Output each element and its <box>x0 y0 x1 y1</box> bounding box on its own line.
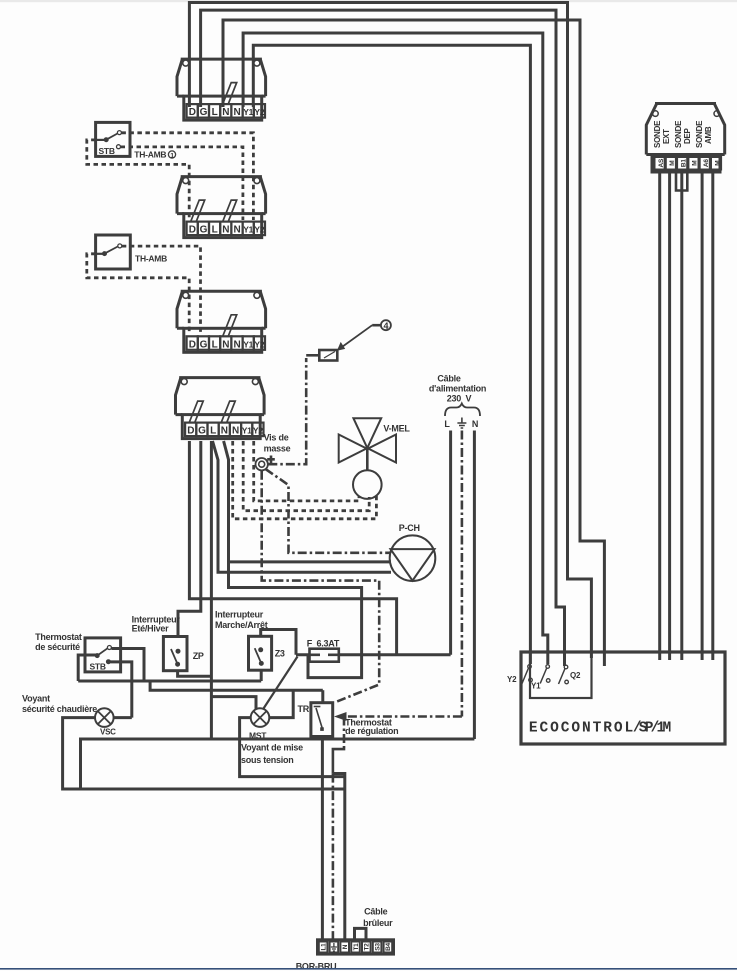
brace over supply wires <box>445 404 480 417</box>
earth bus to TR with arrow <box>346 715 462 718</box>
wire Z3 bottom to bus <box>260 670 263 681</box>
flow sensor pocket (clixon) <box>319 350 337 361</box>
supply wire earth <box>461 431 464 717</box>
svg-text:4: 4 <box>384 321 389 331</box>
terminal block 2 <box>177 177 266 238</box>
svg-text:STB: STB <box>90 662 106 672</box>
svg-text:Y1: Y1 <box>531 682 541 691</box>
svg-text:Y2: Y2 <box>507 675 517 684</box>
svg-text:V-MEL: V-MEL <box>383 424 410 434</box>
wire block1-G to ECOCONTROL Q2 <box>201 10 565 666</box>
wire MST right up to bus <box>269 690 293 717</box>
jumper on block2 G <box>191 200 205 222</box>
svg-text:M: M <box>669 161 676 166</box>
svg-text:d'alimentation: d'alimentation <box>429 384 486 394</box>
switch ZP ete/hiver <box>163 637 187 671</box>
fuse F 6.3AT <box>310 649 339 662</box>
svg-text:AS: AS <box>658 158 665 167</box>
wire block1-Y2 to ECOCONTROL Y2 switch <box>253 45 530 664</box>
earth symbol on terminal 2 <box>331 943 337 951</box>
wire VSC left down to N loop <box>63 718 345 789</box>
cable bruleur hook over T1 <box>355 928 367 939</box>
wire block4-L down to ZP junction <box>210 441 213 739</box>
svg-text:TH-AMB: TH-AMB <box>134 150 166 160</box>
svg-text:Câble: Câble <box>364 907 388 917</box>
svg-text:T1: T1 <box>353 943 360 951</box>
svg-text:Thermostat: Thermostat <box>35 632 82 642</box>
switch Y2 <box>522 665 532 684</box>
wire ZP bottom to L junction <box>178 671 212 677</box>
svg-text:230 V: 230 V <box>447 394 472 404</box>
thermostat de securite STB box <box>85 638 121 672</box>
wire block1-D to ECOCONTROL (top loop outermost) <box>189 3 591 659</box>
wire bus to TR top <box>321 690 324 703</box>
dashed wire TH-AMB2 pivot to block3 D <box>87 254 189 334</box>
svg-text:TH-AMB: TH-AMB <box>135 254 167 264</box>
svg-text:SONDE: SONDE <box>695 120 704 148</box>
ECOCONTROL switch sub-box <box>530 652 592 698</box>
svg-text:L: L <box>444 419 450 429</box>
earth wire screw down to TR diagonal <box>262 471 380 703</box>
svg-text:P-CH: P-CH <box>399 523 420 533</box>
terminal block 3 <box>177 291 266 352</box>
N bus bottom <box>81 739 241 789</box>
wire block1-Y1 to ECOCONTROL Y1 switch <box>243 33 548 664</box>
dashed wire block4-N5 to V-MEL motor <box>233 441 377 519</box>
jumper on block4 N <box>221 401 235 423</box>
svg-text:Q2: Q2 <box>570 671 581 680</box>
room thermostat TH-AMB 1 box <box>96 122 130 156</box>
wire block1-N to ECOCONTROL <box>223 20 604 666</box>
svg-text:de sécurité: de sécurité <box>35 642 80 652</box>
wire STB pivot left-down <box>78 655 97 681</box>
earth branch down to burner terminal <box>343 717 346 749</box>
svg-text:N: N <box>472 419 478 429</box>
svg-text:Eté/Hiver: Eté/Hiver <box>132 623 170 633</box>
N wire down to burner terminal <box>333 774 345 940</box>
wire MST top loop <box>211 697 256 710</box>
svg-text:EXT: EXT <box>662 129 671 148</box>
wire block4-G down to ZP switch <box>178 441 201 637</box>
svg-text:brûleur: brûleur <box>363 918 393 928</box>
wire TR bottom to burner terminal L1 <box>321 737 324 940</box>
svg-text:M: M <box>714 161 721 166</box>
sonde jumper terminals 3-4 <box>676 172 687 191</box>
sonde labels vertical <box>653 120 713 148</box>
TH-AMB2 switch <box>96 244 122 256</box>
switch Y1 <box>540 665 550 684</box>
svg-text:AMB: AMB <box>704 126 713 148</box>
dashed wire TH-AMB2 upper contact to block3 G <box>122 246 201 334</box>
bottom rule line <box>0 968 737 970</box>
wire VSC right to STB <box>114 716 132 719</box>
earth wire screw to flow sensor <box>268 358 306 464</box>
terminal block 4 <box>176 378 265 439</box>
switch Q2 <box>559 665 569 684</box>
TH-AMB1 switch <box>96 131 122 149</box>
switch Z3 marche/arret <box>249 636 272 670</box>
wire block4-D down to L-bus <box>189 441 396 655</box>
jumper on block3 N <box>223 315 237 337</box>
supply wire L <box>449 431 452 655</box>
svg-text:Interrupteur: Interrupteur <box>215 610 264 620</box>
svg-text:sécurité chaudière: sécurité chaudière <box>22 704 97 714</box>
bus STB-Z3 <box>78 680 261 683</box>
svg-text:T2: T2 <box>364 943 371 951</box>
burner terminal block BOR-BRU <box>318 940 394 954</box>
wire block4-N to pump <box>224 441 391 562</box>
sonde wires down to ECOCONTROL <box>658 172 661 660</box>
wire STB lower contact to VSC lamp <box>110 662 131 718</box>
svg-text:S3: S3 <box>374 943 381 951</box>
supply wire N <box>473 431 476 740</box>
circled note 4 <box>381 320 391 330</box>
mixing valve V-MEL <box>339 418 396 470</box>
dashed wire block4-Y1 to V-MEL motor <box>243 441 369 511</box>
svg-text:B4: B4 <box>385 942 392 950</box>
wire L-bus up-over to Z3 <box>261 630 296 655</box>
wire N branch down to staircase <box>229 562 362 678</box>
svg-text:SONDE: SONDE <box>674 120 683 148</box>
L bus fuse line <box>296 653 451 656</box>
svg-text:M: M <box>692 161 699 166</box>
wire block4-L second to pump <box>213 441 392 572</box>
svg-text:/SP/1M: /SP/1M <box>633 721 671 737</box>
sensor arrow to note 4 <box>339 325 373 349</box>
svg-text:Voyant: Voyant <box>22 693 50 703</box>
sonde terminal labels <box>658 158 722 167</box>
svg-text:de régulation: de régulation <box>345 726 398 736</box>
diagonal fuse junction to MST lamp <box>264 657 298 709</box>
dashed wire TH-AMB1 pivot to block2 D <box>87 140 189 220</box>
jumper on block2 N <box>223 200 237 222</box>
pump P-CH <box>390 535 436 581</box>
wire STB top contact right-down to L bus <box>111 649 144 682</box>
svg-text:A6: A6 <box>703 159 710 167</box>
room thermostat TH-AMB 2 box <box>96 235 131 269</box>
terminal block 1 <box>177 59 266 120</box>
sonde terminal cells <box>655 157 722 170</box>
sonde connector body <box>646 104 724 173</box>
lamp VSC <box>95 708 114 727</box>
svg-text:DEP: DEP <box>683 127 692 148</box>
svg-text:VSC: VSC <box>100 728 116 737</box>
svg-text:SONDE: SONDE <box>653 120 662 148</box>
jumper on block1 N <box>223 83 237 105</box>
svg-text:TR: TR <box>298 704 310 714</box>
svg-text:Câble: Câble <box>437 374 461 384</box>
svg-text:L1: L1 <box>320 943 327 951</box>
svg-text:Voyant de mise: Voyant de mise <box>241 743 303 753</box>
svg-text:STB: STB <box>99 146 115 156</box>
bus to MST and TR <box>150 681 323 690</box>
svg-text:sous tension: sous tension <box>241 755 294 765</box>
svg-text:F 6.3AT: F 6.3AT <box>307 638 340 648</box>
svg-text:Vis de: Vis de <box>264 433 289 443</box>
svg-text:ZP: ZP <box>193 651 204 661</box>
svg-text:Marche/Arrêt: Marche/Arrêt <box>215 620 268 630</box>
N bus from supply <box>240 738 474 741</box>
V-MEL motor circle <box>353 470 382 499</box>
jumper on block4 G <box>189 401 203 423</box>
svg-text:Z3: Z3 <box>275 649 285 659</box>
dashed wire TH-AMB1 lower contact to block2 Y1 <box>121 147 243 220</box>
earth wire screw diagonal to pump <box>266 469 392 553</box>
vis de masse ground screw <box>256 456 275 471</box>
svg-text:masse: masse <box>264 444 291 454</box>
svg-text:N: N <box>342 944 349 949</box>
lamp MST <box>251 708 270 727</box>
thermostat TR box <box>311 703 333 737</box>
ECOCONTROL box <box>521 652 725 744</box>
dashed wire TH-AMB1 upper contact to block2 Y2 <box>121 133 253 220</box>
wire MST left down to N bus <box>240 718 345 777</box>
dashed wire block4-Y2 to V-MEL motor <box>254 441 359 501</box>
svg-text:B1: B1 <box>680 159 687 167</box>
